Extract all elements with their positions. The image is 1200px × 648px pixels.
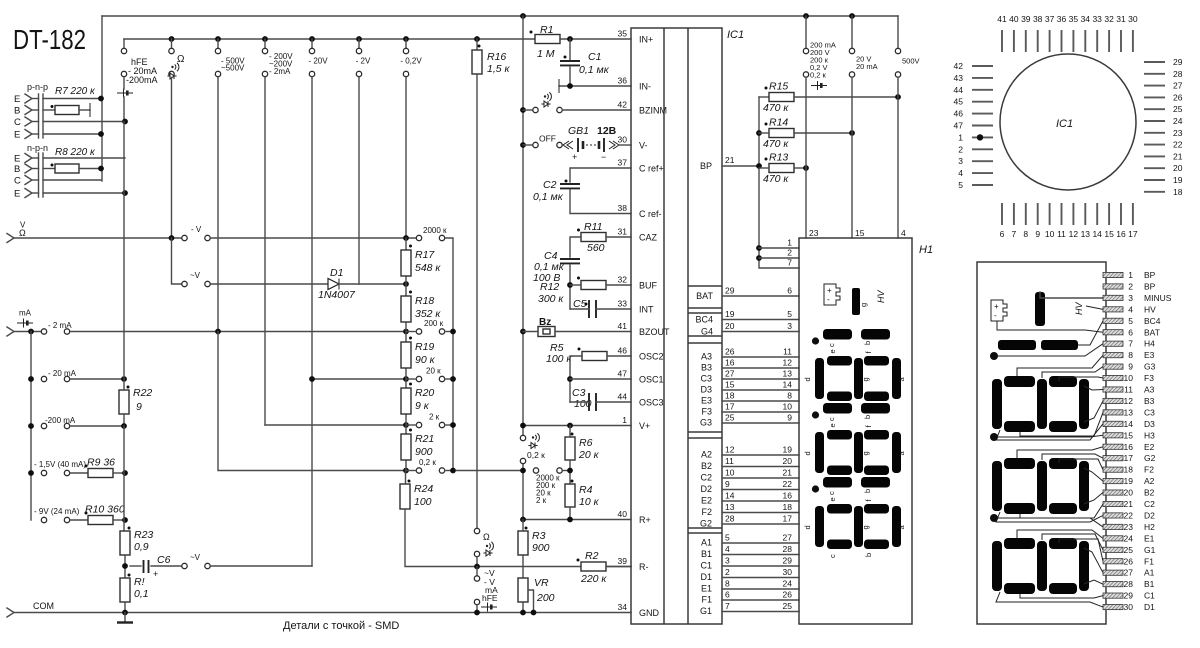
junction R13 left / BP	[756, 163, 762, 169]
svg-text:560: 560	[587, 242, 605, 254]
svg-text:DT-182: DT-182	[13, 24, 86, 55]
svg-text:35: 35	[618, 29, 628, 39]
svg-text:6: 6	[725, 590, 730, 600]
svg-text:F2: F2	[701, 507, 712, 517]
svg-text:e: e	[828, 423, 837, 427]
terminal bar IN-	[558, 79, 560, 93]
svg-text:36: 36	[618, 76, 628, 86]
svg-text:12: 12	[1069, 229, 1079, 239]
svg-text:30: 30	[783, 567, 793, 577]
junction top rail / 200mA column	[803, 13, 809, 19]
svg-text:40: 40	[618, 509, 628, 519]
svg-text:R2: R2	[585, 550, 599, 562]
svg-text:200: 200	[536, 592, 555, 604]
svg-text:44: 44	[954, 85, 964, 95]
svg-text:D2: D2	[1144, 510, 1155, 520]
LCD digit 2 block connection wires	[1017, 447, 1103, 458]
svg-text:17: 17	[1128, 229, 1138, 239]
svg-text:B3: B3	[701, 363, 712, 373]
switch -2mA	[41, 329, 46, 334]
svg-text:b: b	[863, 341, 872, 345]
svg-text:C1: C1	[700, 561, 712, 571]
resistor R24 100	[400, 484, 410, 509]
wire R15 to 500V column	[794, 96, 898, 98]
wire R24 top stub	[405, 471, 407, 485]
resistor R19	[401, 342, 411, 368]
switch 0,2k (V+ col)	[520, 435, 525, 440]
svg-text:R23: R23	[134, 529, 153, 541]
svg-text:10: 10	[725, 468, 735, 478]
junction H1 pin1	[756, 245, 762, 251]
svg-text:14: 14	[1092, 229, 1102, 239]
svg-text:2 к: 2 к	[536, 496, 547, 505]
svg-text:2 к: 2 к	[429, 413, 440, 422]
LCD digit 1 block connection wires	[1017, 530, 1103, 538]
svg-text:G3: G3	[700, 418, 712, 428]
switch 200mA/200V/200k/0,2V/0,2k	[805, 16, 807, 48]
switch 20V/20mA	[851, 16, 853, 48]
wire -500V col to 0,2k row	[218, 332, 406, 471]
svg-text:22: 22	[783, 479, 793, 489]
LCD wire minus to pad 3	[1040, 292, 1103, 298]
switch range select right	[533, 468, 538, 473]
junction -500V col / mA row	[215, 329, 221, 335]
wire hFE column lower	[123, 426, 125, 531]
LCD minus segment bar	[1035, 292, 1045, 326]
svg-text:19: 19	[1173, 175, 1183, 185]
svg-text:19: 19	[783, 445, 793, 455]
wire mA column down	[30, 332, 32, 521]
junction bus/R16 column	[474, 36, 480, 42]
svg-text:c: c	[827, 491, 836, 495]
resistor R3 900	[518, 531, 528, 555]
svg-text:47: 47	[954, 121, 964, 131]
svg-text:INT: INT	[639, 305, 654, 315]
svg-text:- 9V (24 mA): - 9V (24 mA)	[34, 507, 80, 516]
svg-text:28: 28	[783, 544, 793, 554]
svg-text:IN+: IN+	[639, 35, 653, 45]
wire D1 to R17/R18 junction	[339, 283, 406, 285]
junction 20k / range bus	[450, 376, 456, 382]
wire IN+ column	[522, 16, 524, 435]
svg-text:F3: F3	[1144, 373, 1154, 383]
wire col to GND row	[476, 605, 478, 613]
svg-text:9: 9	[725, 479, 730, 489]
svg-text:C2: C2	[543, 179, 557, 191]
svg-text:4: 4	[1128, 304, 1133, 314]
svg-text:D2: D2	[700, 484, 712, 494]
svg-text:C ref-: C ref-	[639, 209, 662, 219]
svg-text:17: 17	[725, 402, 735, 412]
svg-text:29: 29	[725, 286, 735, 296]
svg-text:D1: D1	[1144, 602, 1155, 612]
svg-text:13: 13	[1081, 229, 1091, 239]
svg-text:D3: D3	[1144, 419, 1155, 429]
svg-text:E: E	[14, 189, 20, 200]
svg-text:R20: R20	[415, 387, 434, 399]
svg-text:E1: E1	[1144, 533, 1155, 543]
svg-text:g: g	[859, 303, 868, 307]
svg-text:HV: HV	[876, 290, 886, 303]
junction GND/VR wiper	[531, 610, 537, 616]
LCD wire BC4 to pad 5	[1078, 321, 1103, 345]
svg-text:43: 43	[954, 73, 964, 83]
svg-text:220 к: 220 к	[580, 573, 607, 585]
junction V+ col / OFF	[520, 142, 526, 148]
junction R19/R20	[403, 376, 409, 382]
display H1 digit 1	[823, 477, 852, 488]
svg-text:38: 38	[1033, 14, 1043, 24]
svg-text:C1: C1	[588, 51, 601, 63]
wire R+ row	[523, 519, 631, 521]
junction H1 pin2	[756, 255, 762, 261]
svg-text:21: 21	[783, 468, 793, 478]
svg-text:37: 37	[618, 158, 628, 168]
junction -V row / R17 top	[403, 235, 409, 241]
svg-text:- 1,5V (40 mA): - 1,5V (40 mA)	[34, 460, 86, 469]
svg-text:n-p-n: n-p-n	[27, 143, 48, 153]
svg-text:4: 4	[901, 228, 906, 238]
svg-text:C2: C2	[1144, 499, 1155, 509]
svg-text:14: 14	[725, 491, 735, 501]
svg-text:29: 29	[1173, 57, 1183, 67]
wire R22 bottom to -200mA row	[123, 414, 125, 427]
junction 2k / range bus	[450, 422, 456, 428]
svg-text:18: 18	[1124, 465, 1134, 475]
wire 200mA column to H1 pin 23	[805, 77, 807, 238]
display H1 digit 2	[823, 403, 852, 414]
junction R22 top	[121, 376, 127, 382]
svg-text:R13: R13	[769, 152, 788, 164]
LCD digit 2 block	[1004, 458, 1035, 469]
wire BC4 19-5	[722, 319, 799, 321]
svg-text:R12: R12	[540, 281, 559, 293]
svg-text:hFE: hFE	[482, 593, 498, 603]
junction R18/R19	[403, 329, 409, 335]
svg-text:15: 15	[725, 380, 735, 390]
svg-text:7: 7	[725, 601, 730, 611]
wire left drop from top rail	[101, 16, 103, 181]
wire R3 column	[522, 520, 524, 532]
svg-text:28: 28	[1173, 69, 1183, 79]
battery icon H1	[824, 284, 840, 305]
svg-text:-: -	[827, 295, 830, 304]
wire IN- row	[559, 85, 631, 87]
svg-text:10: 10	[1124, 373, 1134, 383]
svg-text:25: 25	[725, 413, 735, 423]
svg-text:34: 34	[1081, 14, 1091, 24]
svg-text:BZINM: BZINM	[639, 106, 667, 116]
wire R13 to 200mA column	[794, 167, 806, 169]
svg-text:R17: R17	[415, 249, 435, 261]
wire R23 to C6 junction	[124, 555, 126, 578]
junction R9 right	[122, 470, 128, 476]
svg-text:e: e	[828, 497, 837, 501]
svg-text:27: 27	[783, 533, 793, 543]
svg-text:- 20V: - 20V	[308, 57, 328, 66]
resistor R! 0,1	[120, 578, 130, 602]
svg-text:G1: G1	[1144, 545, 1156, 555]
segment minus bar H1	[852, 288, 860, 315]
svg-text:MINUS: MINUS	[1144, 293, 1172, 303]
svg-text:R15: R15	[769, 81, 788, 93]
svg-text:A1: A1	[701, 538, 712, 548]
svg-text:- V: - V	[191, 225, 202, 234]
svg-text:B2: B2	[1144, 488, 1155, 498]
wire C4 to BUF junction	[569, 265, 571, 309]
svg-text:19: 19	[1124, 476, 1134, 486]
svg-text:16: 16	[725, 358, 735, 368]
junction bus/-200V column	[262, 36, 268, 42]
svg-text:b: b	[863, 415, 872, 419]
wire segment C2	[722, 477, 799, 479]
switch 20k	[416, 376, 421, 381]
svg-text:G3: G3	[1144, 362, 1156, 372]
svg-text:g: g	[861, 377, 870, 381]
svg-text:9: 9	[1128, 362, 1133, 372]
svg-text:17: 17	[1124, 453, 1134, 463]
svg-text:4: 4	[958, 168, 963, 178]
wire -20mA row	[70, 378, 124, 380]
svg-text:100: 100	[414, 496, 432, 508]
svg-text:E1: E1	[701, 584, 712, 594]
svg-text:+: +	[994, 302, 999, 311]
wire R6 column	[569, 426, 571, 438]
svg-text:47: 47	[618, 369, 628, 379]
svg-text:e: e	[828, 349, 837, 353]
svg-text:9: 9	[787, 413, 792, 423]
svg-text:- 20 mA: - 20 mA	[48, 369, 77, 378]
svg-text:18: 18	[1173, 187, 1183, 197]
svg-text:0,2 к: 0,2 к	[527, 450, 545, 460]
svg-text:41: 41	[997, 14, 1007, 24]
svg-text:E2: E2	[1144, 442, 1155, 452]
svg-text:40: 40	[1009, 14, 1019, 24]
LCD battery icon	[991, 300, 1007, 321]
svg-text:3: 3	[725, 556, 730, 566]
svg-text:g: g	[861, 451, 870, 455]
wire V input row	[14, 237, 181, 239]
svg-text:13: 13	[783, 369, 793, 379]
svg-text:- 2V: - 2V	[356, 57, 371, 66]
junction -1,5V	[28, 470, 34, 476]
switch 2000k	[416, 235, 421, 240]
svg-text:f: f	[864, 425, 873, 428]
wire H1 pin 2	[759, 257, 799, 259]
svg-text:C2: C2	[700, 473, 712, 483]
wire BZINM to pin 42	[562, 109, 631, 111]
svg-text:R18: R18	[415, 295, 434, 307]
svg-text:8: 8	[1128, 350, 1133, 360]
svg-text:8: 8	[1023, 229, 1028, 239]
svg-text:20: 20	[1173, 163, 1183, 173]
svg-text:25: 25	[1124, 545, 1134, 555]
svg-text:27: 27	[1173, 81, 1183, 91]
wire R14 to 20V column	[794, 132, 852, 134]
socket bars n-p-n	[38, 153, 40, 197]
svg-text:R11: R11	[584, 221, 602, 233]
svg-text:900: 900	[415, 446, 433, 458]
svg-text:41: 41	[618, 321, 628, 331]
svg-text:b: b	[863, 489, 872, 493]
wire omega col to ~V switch	[172, 238, 182, 284]
wire segment G1	[722, 611, 799, 613]
wire E p-n-p bottom	[43, 133, 101, 135]
svg-text:26: 26	[725, 347, 735, 357]
wire segment G3	[722, 422, 799, 424]
wire ladder column	[405, 238, 407, 471]
wire GB1 to pin 30	[619, 144, 631, 146]
svg-text:24: 24	[783, 579, 793, 589]
svg-text:H2: H2	[1144, 522, 1155, 532]
IC1 die bottom pins 6-17	[1001, 203, 1003, 225]
wire R11 to pin 31	[606, 236, 631, 238]
svg-text:R8 220 к: R8 220 к	[55, 147, 96, 158]
svg-text:5: 5	[958, 180, 963, 190]
svg-text:200 к: 200 к	[424, 319, 444, 328]
resistor R23 0,9	[120, 531, 130, 555]
wire segment A1	[722, 542, 799, 544]
svg-text:31: 31	[618, 227, 628, 237]
svg-text:VR: VR	[534, 577, 549, 589]
svg-text:500V: 500V	[902, 57, 920, 66]
svg-text:D1: D1	[330, 267, 343, 279]
svg-text:+: +	[572, 152, 577, 162]
switch ~V (C6)	[182, 563, 187, 568]
socket bars p-n-p	[38, 94, 40, 138]
svg-text:C3: C3	[700, 374, 712, 384]
svg-text:1,5 к: 1,5 к	[487, 63, 511, 75]
svg-text:25: 25	[783, 601, 793, 611]
resistor R6 20k	[565, 437, 575, 460]
svg-text:28: 28	[1124, 579, 1134, 589]
wire C n-p-n	[43, 179, 101, 181]
svg-text:BZOUT: BZOUT	[639, 327, 670, 337]
svg-text:10 к: 10 к	[579, 496, 600, 508]
wire mA row	[14, 331, 41, 333]
wire segment F1	[722, 599, 799, 601]
wire 0,2k row to V+ column	[456, 470, 523, 472]
svg-text:21: 21	[1124, 499, 1134, 509]
svg-text:R14: R14	[769, 117, 788, 129]
wire B n-p-n to R8	[43, 168, 55, 170]
wire OSC1 to pin 47	[570, 378, 631, 380]
svg-text:12: 12	[725, 445, 735, 455]
IC1 die pinout circle	[1000, 54, 1136, 190]
svg-text:470 к: 470 к	[763, 138, 789, 150]
svg-text:3: 3	[1128, 293, 1133, 303]
svg-text:+: +	[153, 569, 158, 579]
svg-text:9 к: 9 к	[415, 400, 430, 412]
svg-text:D1: D1	[700, 572, 712, 582]
svg-text:15: 15	[1104, 229, 1114, 239]
svg-text:mA: mA	[19, 309, 32, 318]
switch ~V -V mA hFE	[476, 567, 478, 576]
svg-text:19: 19	[725, 309, 735, 319]
svg-text:8: 8	[725, 579, 730, 589]
svg-text:R+: R+	[639, 515, 651, 525]
junction C4/R12/C5	[567, 282, 573, 288]
svg-text:16: 16	[783, 491, 793, 501]
svg-text:22: 22	[1124, 510, 1134, 520]
svg-text:p-n-p: p-n-p	[27, 82, 48, 92]
resistor VR 200	[518, 578, 528, 602]
svg-text:26: 26	[783, 590, 793, 600]
junction COM / R!	[122, 610, 128, 616]
resistor R21	[401, 434, 411, 460]
battery icon 200mA col	[811, 85, 827, 87]
wire segment D3	[722, 389, 799, 391]
svg-text:20: 20	[725, 321, 735, 331]
svg-text:-200mA: -200mA	[126, 75, 158, 85]
wire 2000k to range bus	[445, 238, 453, 472]
svg-text:- 2mA: - 2mA	[269, 67, 291, 76]
wire C2 to C ref- pin 38	[570, 190, 631, 214]
battery icon hFE	[117, 92, 133, 94]
wire C5 to pin 33	[596, 308, 631, 310]
resistor R20	[401, 388, 411, 414]
svg-text:20: 20	[1124, 488, 1134, 498]
wire segment B2	[722, 466, 799, 468]
resistor R22 9	[119, 390, 129, 414]
switch hFE range	[123, 39, 125, 48]
resistor R4 10k	[565, 484, 575, 507]
svg-text:~V: ~V	[190, 271, 201, 280]
wire segment A3	[722, 356, 799, 358]
svg-text:7: 7	[1012, 229, 1017, 239]
svg-text:-: -	[994, 311, 997, 320]
terminal bar R7	[89, 103, 91, 117]
wire V+ row	[523, 425, 631, 427]
svg-text:18: 18	[783, 502, 793, 512]
wire BAT 29-6	[722, 295, 799, 297]
resistor R18	[401, 296, 411, 322]
display H1 box	[799, 238, 912, 624]
junction bus/-20V column	[309, 36, 315, 42]
wire VR bottom to GND row	[522, 602, 524, 613]
IC1 die top pins 41-30	[1001, 30, 1003, 52]
wire C3 to pin 44 OSC3	[596, 401, 631, 403]
wire hFE column mid	[123, 122, 125, 391]
svg-text:11: 11	[783, 347, 792, 357]
svg-text:28: 28	[725, 514, 735, 524]
svg-text:E3: E3	[1144, 350, 1155, 360]
wire COM / GND row	[14, 612, 631, 614]
junction R1/C1	[567, 36, 573, 42]
switch -V	[182, 235, 187, 240]
svg-text:A3: A3	[701, 352, 712, 362]
svg-text:c: c	[828, 554, 837, 558]
wire R11 left to C4	[570, 237, 581, 257]
op-amp IC1 converter box	[631, 28, 722, 624]
LCD BC4 segment bars	[998, 340, 1036, 350]
svg-text:2: 2	[725, 567, 730, 577]
svg-text:F2: F2	[1144, 465, 1154, 475]
svg-text:14: 14	[1124, 419, 1134, 429]
switch 200k	[416, 329, 421, 334]
wire G4 20-3	[722, 331, 799, 333]
junction bus/-500V column	[215, 36, 221, 42]
wire segment D1	[722, 577, 799, 579]
svg-text:34: 34	[618, 602, 628, 612]
svg-text:26: 26	[1173, 92, 1183, 102]
svg-text:R3: R3	[532, 530, 546, 542]
capacitor C1 0,1mk	[569, 39, 571, 59]
svg-text:0,2 к: 0,2 к	[419, 458, 436, 467]
svg-text:F1: F1	[1144, 556, 1154, 566]
svg-text:R7 220 к: R7 220 к	[55, 86, 96, 97]
wire 500V column to H1 pin 4	[897, 77, 899, 238]
